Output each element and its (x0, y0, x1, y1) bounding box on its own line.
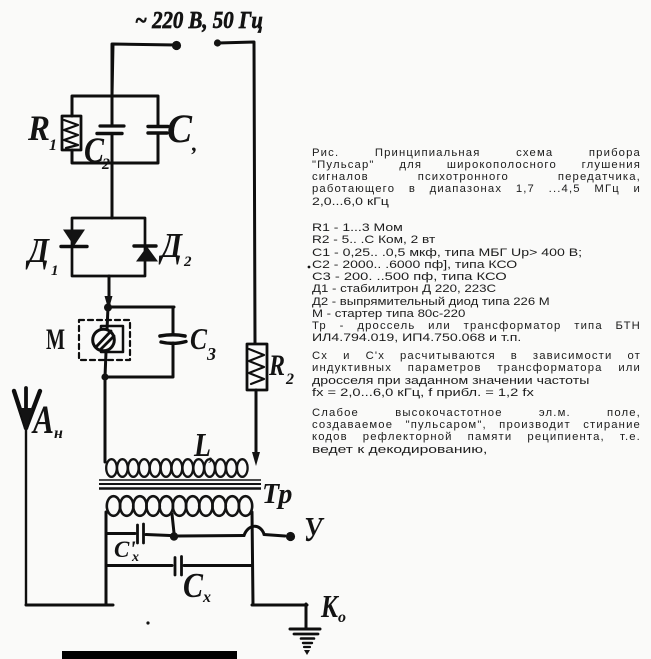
svg-text:К: К (320, 588, 340, 624)
svg-text:C: C (190, 321, 207, 356)
svg-text:Тр: Тр (262, 479, 292, 510)
svg-text:1: 1 (49, 137, 57, 154)
svg-text:2: 2 (101, 156, 110, 173)
svg-text:C: C (183, 566, 204, 605)
svg-text:x: x (131, 550, 139, 565)
svg-text:,: , (191, 131, 198, 156)
svg-text:3: 3 (206, 344, 216, 364)
svg-text:Д: Д (158, 226, 183, 265)
svg-text:x: x (202, 589, 211, 606)
svg-text:Д: Д (25, 231, 50, 270)
svg-text:1: 1 (51, 263, 59, 279)
svg-text:~ 220 B, 50 Гц: ~ 220 B, 50 Гц (135, 8, 263, 34)
svg-text:У: У (304, 510, 325, 549)
svg-text:,: , (208, 444, 214, 464)
svg-text:2: 2 (183, 254, 192, 270)
svg-text:R: R (268, 349, 285, 382)
svg-text:о: о (338, 609, 346, 626)
svg-text:M: M (46, 323, 65, 356)
svg-text:2: 2 (285, 371, 294, 388)
svg-text:R: R (27, 108, 50, 148)
svg-text:А: А (31, 397, 54, 442)
svg-text:C: C (167, 106, 193, 151)
svg-text:н: н (54, 425, 63, 442)
